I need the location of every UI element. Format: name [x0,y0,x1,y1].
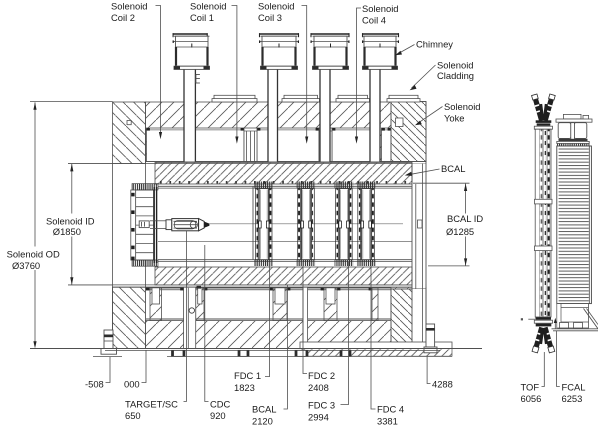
label Solenoid OD [7,249,60,271]
pocket divider block 1 [244,128,257,162]
label CDC [210,398,231,421]
TOF lower collar [534,317,552,326]
support foot 4 [340,350,351,356]
TOF upper phototube V [532,94,556,121]
label 000 [124,378,140,389]
BCAL lower band [155,267,412,285]
label Solenoid ID [46,216,95,237]
solenoid ID dimension line [70,164,73,285]
BCAL ID dimension line [464,183,467,265]
svg-text:Yoke: Yoke [444,112,465,123]
downstream door lower part [412,289,426,342]
svg-text:FCAL: FCAL [562,381,586,392]
solenoid OD dimension line [33,102,36,348]
svg-text:6056: 6056 [521,393,542,404]
svg-text:FDC 4: FDC 4 [377,403,404,414]
svg-text:Ø1285: Ø1285 [446,226,474,237]
leader 000 [142,351,147,383]
upstream end plate double wall [154,187,156,263]
svg-text:Coil 1: Coil 1 [190,12,214,23]
chimney tower of coil 3 (U3) [311,33,350,161]
lower support stem under tower 3 [303,287,308,348]
label BCAL ID [446,213,483,237]
solenoid ID extension lines [68,164,113,285]
svg-text:3381: 3381 [377,416,398,427]
svg-text:-508: -508 [85,378,104,389]
yoke downstream corner block (bottom-right chevron) [391,289,426,349]
FCAL top gear boxes [556,114,592,122]
chimney tower of coil 2 (U2) [259,33,299,161]
svg-text:Ø1850: Ø1850 [53,226,81,237]
support foot 2 [238,350,249,356]
TOF upper collar [534,120,552,129]
FDC package 4 [357,182,376,267]
label TOF [521,381,542,404]
leader coil 4 [355,8,361,144]
label FDC 2 [308,370,335,393]
svg-text:TOF: TOF [521,381,540,392]
FCAL support base [557,304,589,328]
label Solenoid Coil 3 [258,1,295,23]
svg-text:BCAL ID: BCAL ID [447,213,483,224]
label FDC 1 [234,370,261,393]
leader 4288 [427,357,430,384]
bore inner rails bottom [158,260,412,262]
svg-text:TARGET/SC: TARGET/SC [125,398,178,409]
svg-text:Coil 3: Coil 3 [258,12,282,23]
leader coil 2 [156,6,163,140]
label 4288 [432,378,453,389]
start counter ladder [131,190,154,260]
TOF left reference tick [521,318,535,320]
target/SC nose assembly (bullet) [139,219,209,231]
svg-text:1823: 1823 [234,382,255,393]
label TARGET/SC [125,398,178,421]
BCAL ID extension lines [413,183,470,266]
upstream leg [101,330,117,354]
svg-text:FDC 3: FDC 3 [308,399,335,410]
downstream door / end plate [412,162,426,343]
base rails [30,349,482,351]
ground line [93,355,452,357]
leader chimney [395,45,414,56]
svg-text:Solenoid: Solenoid [111,1,148,12]
lower divider column 4 [324,288,337,321]
leader CDC [205,245,209,402]
FCAL survey arrow [554,318,557,329]
label Solenoid Yoke [444,101,481,123]
label -508 [85,378,104,389]
leader FDC 3 [341,262,349,405]
FCAL diagonal brace [584,309,598,329]
solenoid bore liner lines (top) [68,162,426,164]
upstream equipment dense strip bottom [132,260,158,266]
support foot 1 [172,350,186,356]
leader coil 3 [302,6,309,144]
leader yoke [415,107,443,126]
FCAL base line [552,329,598,331]
leader FCAL [557,331,560,387]
leader BCAL [405,169,440,176]
svg-text:920: 920 [210,410,226,421]
svg-text:FDC 1: FDC 1 [234,370,261,381]
svg-text:Solenoid: Solenoid [258,1,295,12]
svg-text:2994: 2994 [308,412,329,423]
leader TARGET/SC [184,231,187,402]
lower divider column 5 [372,288,378,321]
svg-text:Solenoid: Solenoid [437,60,474,71]
label BCAL 2120 [252,403,277,426]
leader FDC 1 [265,262,270,377]
svg-text:4288: 4288 [432,378,453,389]
svg-text:Solenoid: Solenoid [190,1,227,12]
label Solenoid Cladding [437,60,474,82]
label Solenoid Coil 1 [190,1,227,23]
lower divider column 3 [273,288,287,321]
svg-text:Solenoid OD: Solenoid OD [7,249,60,260]
svg-text:650: 650 [125,410,141,421]
chimney tower of coil 1 (U1) [173,33,210,161]
svg-text:2408: 2408 [308,382,329,393]
FDC package 2 [297,182,316,267]
yoke downstream corner block (top-right chevron) [391,102,426,162]
downstream platform hatched strip [302,349,452,357]
label FDC 3 [308,399,335,422]
pocket divider block 2 [319,128,332,162]
leader coil 1 [232,6,239,144]
leader FDC 4 [371,262,376,409]
svg-text:Cladding: Cladding [437,70,474,81]
support foot 3 [295,350,308,356]
svg-text:BCAL: BCAL [441,163,466,174]
svg-text:Solenoid: Solenoid [362,3,399,14]
svg-text:CDC: CDC [210,398,231,409]
svg-text:FDC 2: FDC 2 [308,370,335,381]
solenoid OD extension lines [30,100,113,102]
inner support rail mid [158,240,412,242]
FCAL top cylinders [557,123,590,146]
lower divider column 2 [196,288,204,321]
label Solenoid Coil 4 [362,3,399,25]
label FDC 4 [377,403,404,426]
solenoid cladding strips [212,95,420,102]
FCAL lead glass stack [557,146,592,304]
svg-text:Coil 2: Coil 2 [111,12,135,23]
downstream platform deck [300,342,452,349]
lower divider column 1 [150,288,162,321]
BCAL upper band [155,163,412,185]
downstream leg [424,324,437,353]
label FCAL [562,381,586,404]
yoke upstream end plate bore edges [113,128,146,289]
TOF column [535,129,553,317]
svg-text:Coil 4: Coil 4 [362,14,386,25]
bore inner rails top [158,186,412,188]
leader cladding [410,65,436,90]
leader FDC 2 [303,262,307,374]
leader BCAL 2120 [284,285,288,409]
svg-text:6253: 6253 [562,393,583,404]
solenoid bore liner lines (bottom) [68,285,426,287]
upstream equipment dense strip top [132,184,158,190]
solenoid yoke upstream end plate (top-left block) [113,102,146,164]
solenoid yoke upstream end plate (bottom-left block) [113,287,146,348]
label Chimney [416,39,453,50]
svg-text:2120: 2120 [252,416,273,427]
solenoid yoke top band [146,102,427,162]
svg-text:Solenoid: Solenoid [444,101,481,112]
solenoid yoke bottom band [113,287,427,348]
label Solenoid Coil 2 [111,1,148,23]
leader TOF [542,352,545,387]
beam center line [209,223,403,225]
FDC package 3 [335,182,354,267]
svg-text:BCAL: BCAL [252,403,277,414]
svg-text:Ø3760: Ø3760 [12,260,40,271]
chimney tower of coil 4 (U4) [362,33,399,161]
TOF lower phototube V [532,327,555,353]
FDC package 1 [254,182,273,267]
label BCAL [441,163,466,174]
lower support pocket row [146,288,392,321]
leader -508 [106,357,111,383]
CDC downstream endplate [252,187,254,261]
svg-text:000: 000 [124,378,140,389]
svg-text:Chimney: Chimney [416,39,453,50]
lower support stem under tower 1 [184,286,201,349]
coil pocket row (cryostat cutouts) [147,128,392,162]
